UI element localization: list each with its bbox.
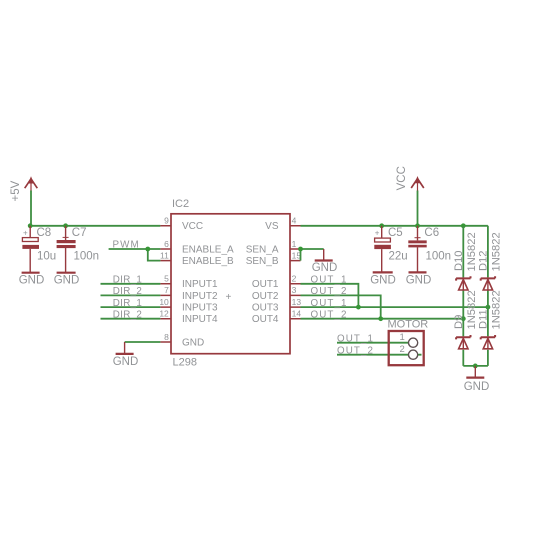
capacitor C6: [408, 226, 451, 272]
svg-text:DIR_2: DIR_2: [113, 309, 142, 320]
node junction D10 rail: [461, 223, 466, 228]
svg-text:C8: C8: [37, 227, 52, 239]
svg-text:VCC: VCC: [182, 221, 203, 232]
svg-text:GND: GND: [464, 381, 490, 393]
ground bottom right: [464, 366, 490, 393]
diode D10: [453, 232, 478, 290]
svg-text:+5V: +5V: [10, 180, 22, 201]
wire DIR_1 pin10: [101, 306, 161, 308]
svg-text:GND: GND: [406, 274, 432, 286]
diode D12: [478, 232, 503, 290]
wire OUT_1 net pin2: [301, 284, 359, 307]
pin numbers right: [292, 216, 302, 319]
svg-text:11: 11: [160, 250, 169, 260]
wire OUT_2 rail pin14: [301, 318, 464, 320]
ground pin8: [113, 342, 139, 368]
svg-text:ENABLE_A: ENABLE_A: [182, 244, 234, 255]
svg-text:2: 2: [400, 344, 405, 355]
connector MOTOR: [388, 319, 429, 366]
svg-text:1N5822: 1N5822: [491, 290, 503, 329]
svg-text:INPUT3: INPUT3: [182, 303, 218, 314]
wire DIR_2 pin12: [101, 318, 161, 320]
svg-text:5: 5: [164, 274, 169, 284]
svg-text:L298: L298: [173, 356, 197, 368]
wire PWM net: [109, 249, 161, 261]
svg-text:C6: C6: [424, 227, 439, 239]
diode D11: [478, 290, 503, 349]
pin numbers left: [159, 216, 169, 342]
wire motor OUT_2: [337, 354, 422, 356]
svg-text:1: 1: [292, 239, 297, 249]
svg-text:10: 10: [159, 297, 169, 307]
ground below C7: [54, 273, 80, 287]
svg-text:1N5822: 1N5822: [491, 232, 503, 271]
svg-text:D11: D11: [478, 309, 490, 329]
node junction VCC/C6: [415, 223, 420, 228]
svg-text:3: 3: [292, 285, 297, 295]
svg-text:PWM: PWM: [113, 240, 140, 251]
svg-text:13: 13: [292, 297, 302, 307]
wire OUT_2 net pin3: [301, 295, 381, 318]
capacitor C5: [374, 226, 407, 272]
wire VS rail: [301, 225, 488, 227]
svg-text:C5: C5: [388, 227, 403, 239]
node junction PWM: [145, 247, 150, 252]
svg-text:DIR_1: DIR_1: [113, 298, 142, 309]
svg-text:14: 14: [292, 309, 302, 319]
node junction bottom ground: [473, 364, 478, 369]
svg-text:ENABLE_B: ENABLE_B: [182, 256, 234, 267]
svg-text:OUT_2: OUT_2: [311, 309, 348, 320]
pin names left: [182, 221, 234, 348]
svg-text:100n: 100n: [74, 251, 100, 263]
svg-text:DIR_1: DIR_1: [113, 275, 142, 286]
svg-text:4: 4: [292, 216, 297, 226]
svg-text:IC2: IC2: [172, 198, 189, 210]
capacitor C8: [22, 226, 56, 272]
wire motor OUT_1: [337, 342, 409, 344]
pin stubs left: [160, 226, 171, 342]
node junction C5: [379, 223, 384, 228]
svg-text:OUT3: OUT3: [252, 303, 279, 314]
svg-text:INPUT4: INPUT4: [182, 314, 218, 325]
svg-text:SEN_B: SEN_B: [246, 256, 279, 267]
svg-text:22u: 22u: [389, 250, 408, 262]
svg-text:12: 12: [159, 309, 169, 319]
supply VCC symbol: [396, 166, 424, 191]
svg-text:GND: GND: [19, 275, 45, 287]
node junction OUT_1 pin2: [356, 305, 361, 310]
wire bottom ground rail: [463, 365, 488, 367]
svg-text:+: +: [375, 229, 380, 238]
svg-text:C7: C7: [72, 227, 87, 239]
svg-text:10u: 10u: [37, 251, 56, 263]
svg-text:OUT_1: OUT_1: [311, 275, 348, 286]
wire OUT_1 rail pin13: [301, 306, 488, 308]
svg-text:D9: D9: [453, 315, 465, 329]
diode D9: [453, 290, 478, 349]
node junction SEN: [298, 247, 303, 252]
wire pin8 ground: [125, 341, 161, 343]
ground below C6: [406, 272, 432, 286]
svg-text:OUT4: OUT4: [252, 314, 279, 325]
supply +5V symbol: [10, 176, 37, 201]
svg-text:GND: GND: [370, 274, 396, 286]
svg-text:+: +: [23, 229, 28, 238]
node junction OUT_2 pin3: [378, 316, 383, 321]
svg-text:VCC: VCC: [396, 166, 408, 190]
node junction +5V/C8: [28, 223, 33, 228]
svg-text:VS: VS: [265, 221, 279, 232]
svg-text:7: 7: [164, 285, 169, 295]
svg-text:OUT_2: OUT_2: [337, 345, 374, 356]
svg-text:1: 1: [400, 332, 405, 343]
node junction C7: [63, 223, 68, 228]
wire DIR_2 pin7: [101, 294, 161, 296]
svg-text:INPUT2: INPUT2: [182, 291, 218, 302]
svg-text:OUT2: OUT2: [252, 291, 279, 302]
svg-text:1N5822: 1N5822: [466, 232, 478, 271]
node junction OUT_1 diode column: [486, 305, 491, 310]
capacitor C7: [57, 226, 99, 272]
pin stubs right: [290, 226, 301, 319]
svg-text:2: 2: [292, 274, 297, 284]
wire VCC stem: [417, 191, 419, 226]
svg-text:SEN_A: SEN_A: [246, 244, 279, 255]
svg-text:OUT_2: OUT_2: [311, 286, 348, 297]
op IC2 L298 box: [171, 198, 290, 368]
svg-text:9: 9: [164, 216, 169, 226]
svg-text:D10: D10: [453, 250, 465, 271]
svg-text:GND: GND: [113, 356, 139, 368]
ground below C5: [370, 272, 396, 286]
svg-text:GND: GND: [312, 262, 338, 274]
svg-text:INPUT1: INPUT1: [182, 279, 218, 290]
wire DIR_1 pin5: [101, 283, 161, 285]
svg-text:1N5822: 1N5822: [466, 290, 478, 329]
svg-text:MOTOR: MOTOR: [388, 319, 429, 331]
svg-text:100n: 100n: [426, 250, 452, 262]
svg-text:OUT_1: OUT_1: [337, 333, 374, 344]
svg-text:OUT1: OUT1: [252, 279, 279, 290]
ground SEN: [312, 249, 338, 274]
wire SEN net: [301, 249, 324, 261]
svg-text:OUT_1: OUT_1: [311, 298, 348, 309]
svg-text:6: 6: [164, 239, 169, 249]
wire +5V rail: [30, 225, 160, 227]
wire +5V stem: [30, 191, 32, 226]
wire D10 column: [462, 226, 464, 366]
svg-text:GND: GND: [182, 337, 204, 348]
svg-text:D12: D12: [478, 250, 490, 271]
ground below C8: [19, 273, 45, 287]
svg-text:DIR_2: DIR_2: [113, 286, 142, 297]
svg-text:+: +: [226, 292, 232, 303]
svg-text:GND: GND: [54, 275, 80, 287]
node junction OUT_2 diode column: [461, 316, 466, 321]
wire D12 column: [487, 226, 489, 366]
svg-text:8: 8: [164, 332, 169, 342]
pin names right: [246, 221, 279, 325]
